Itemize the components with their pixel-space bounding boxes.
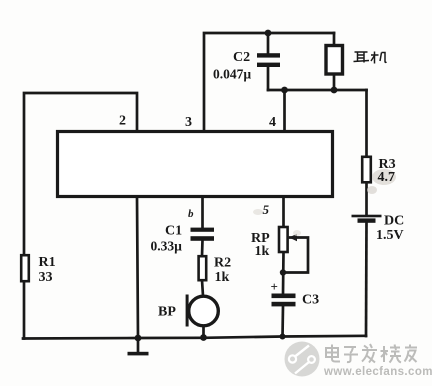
svg-text:2: 2: [119, 114, 126, 129]
svg-text:C1: C1: [165, 224, 182, 239]
svg-text:1.5V: 1.5V: [376, 228, 404, 243]
svg-text:C2: C2: [233, 50, 250, 65]
svg-text:1k: 1k: [255, 244, 270, 259]
svg-text:R1: R1: [39, 255, 56, 270]
svg-text:R2: R2: [214, 256, 231, 271]
svg-text:0.33µ: 0.33µ: [151, 239, 183, 254]
svg-text:4.7: 4.7: [378, 170, 396, 185]
svg-text:C3: C3: [302, 293, 319, 308]
svg-text:4: 4: [269, 115, 276, 130]
svg-text:DC: DC: [384, 214, 404, 229]
svg-text:BP: BP: [158, 305, 176, 320]
svg-text:3: 3: [185, 115, 192, 130]
svg-text:+: +: [271, 279, 278, 294]
svg-text:b: b: [188, 208, 194, 220]
svg-text:www.elecfans.com: www.elecfans.com: [323, 366, 432, 378]
svg-text:1k: 1k: [215, 270, 230, 285]
svg-text:33: 33: [39, 270, 53, 285]
svg-text:5: 5: [263, 202, 270, 217]
svg-text:0.047µ: 0.047µ: [213, 67, 251, 82]
